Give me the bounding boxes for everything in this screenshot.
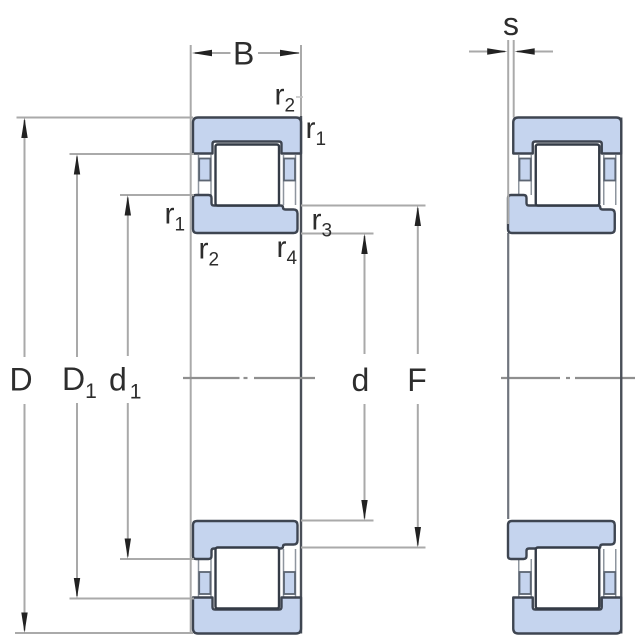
D extension line top bbox=[17, 117, 194, 119]
s extension line (inner ring face, right view) bbox=[507, 40, 509, 224]
D extension line bottom bbox=[15, 632, 193, 634]
svg-text:D: D bbox=[10, 362, 33, 398]
B arrow right bbox=[280, 50, 300, 56]
s extension line (outer ring face, right view) bbox=[513, 40, 515, 118]
F arrow down bbox=[415, 527, 421, 547]
B extension line right bbox=[300, 45, 302, 116]
F extension line top bbox=[301, 205, 426, 207]
cage pocket lines (right view, top) bbox=[519, 155, 616, 205]
inner ring (left view, top) bbox=[193, 195, 298, 233]
outer ring (right view, bottom) bbox=[513, 598, 621, 634]
svg-text:F: F bbox=[407, 362, 427, 398]
d dimension line bbox=[364, 236, 366, 519]
cage bar right (right view, bottom) bbox=[604, 572, 615, 594]
D1 arrow down bbox=[74, 578, 80, 598]
outer ring (right view, top) bbox=[513, 118, 621, 154]
outer ring (left view, top) bbox=[193, 118, 301, 154]
F extension line bottom bbox=[301, 547, 426, 549]
cage pocket lines (left view, bottom) bbox=[199, 549, 296, 598]
D1 extension line bottom bbox=[70, 598, 195, 600]
d1 extension line top bbox=[120, 194, 194, 196]
bore silhouette edge right (left view) bbox=[300, 116, 302, 634]
centerline (left view) bbox=[183, 377, 315, 379]
B dimension line bbox=[195, 52, 299, 54]
cage bar left (left view, top) bbox=[199, 159, 210, 181]
centerline (right view) bbox=[501, 377, 635, 379]
F dimension line bbox=[417, 208, 419, 546]
D1 extension line top bbox=[70, 153, 195, 155]
cage pocket lines (right view, bottom) bbox=[519, 549, 616, 598]
d arrow down bbox=[361, 500, 367, 520]
svg-text:d: d bbox=[352, 362, 370, 398]
D1 dimension line bbox=[76, 157, 78, 597]
s arrow pointing left bbox=[515, 48, 535, 54]
B arrow left bbox=[192, 50, 212, 56]
svg-text:s: s bbox=[503, 6, 519, 42]
d extension line bottom bbox=[301, 520, 374, 522]
cage bar right (right view, top) bbox=[604, 159, 615, 181]
outer ring face silhouette right (right view) bbox=[620, 118, 622, 634]
d1 arrow up bbox=[125, 195, 131, 215]
roller (right view, top) bbox=[536, 145, 600, 206]
d1 dimension line bbox=[127, 198, 129, 557]
svg-text:B: B bbox=[233, 36, 254, 72]
roller (left view, bottom) bbox=[216, 548, 280, 609]
B extension line left bbox=[190, 45, 192, 633]
cage bar right (left view, bottom) bbox=[284, 572, 295, 594]
D arrow up bbox=[21, 118, 27, 138]
cage bar left (right view, bottom) bbox=[520, 572, 531, 594]
D1 arrow up bbox=[74, 154, 80, 174]
cage bar right (left view, top) bbox=[284, 159, 295, 181]
bore silhouette edge left (right view) bbox=[507, 233, 509, 519]
outer ring (left view, bottom) bbox=[193, 598, 301, 634]
cage bar left (left view, bottom) bbox=[199, 572, 210, 594]
leader line near r2 top bbox=[296, 96, 303, 98]
d extension line top bbox=[301, 233, 374, 235]
s dimension line left segment bbox=[469, 51, 505, 53]
cage pocket lines (left view, top) bbox=[199, 155, 296, 205]
D dimension line bbox=[24, 120, 26, 631]
roller (right view, bottom) bbox=[536, 548, 600, 609]
d arrow up bbox=[361, 234, 367, 254]
D arrow down bbox=[21, 613, 27, 633]
s arrow pointing right bbox=[487, 48, 507, 54]
roller (left view, top) bbox=[216, 145, 280, 206]
inner ring (left view, bottom) bbox=[193, 521, 298, 559]
F arrow up bbox=[415, 206, 421, 226]
d1 extension line bottom bbox=[120, 558, 194, 560]
s dimension line right segment bbox=[517, 51, 553, 53]
inner ring (right view, bottom) bbox=[508, 521, 615, 559]
inner ring (right view, top) bbox=[508, 195, 615, 233]
d1 arrow down bbox=[125, 539, 131, 559]
cage bar left (right view, top) bbox=[520, 159, 531, 181]
